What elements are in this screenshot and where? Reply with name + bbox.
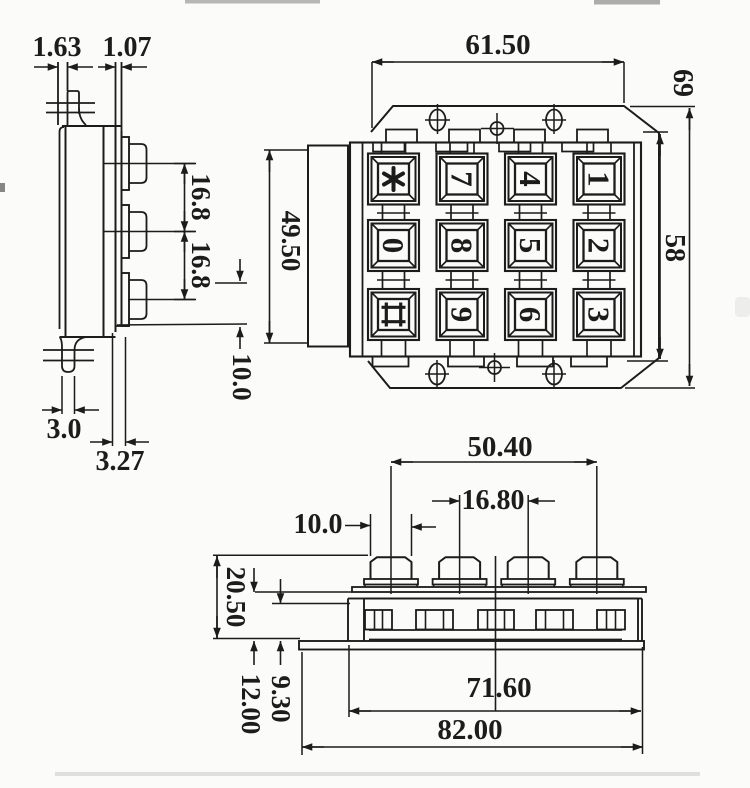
extension line 1.07 left [115, 62, 117, 127]
bottom view button 3 [501, 557, 555, 587]
dim line 58 [656, 134, 664, 359]
extension tick button3 cap top [215, 282, 247, 284]
link row3 to frame-bottom [382, 340, 406, 357]
side view button 3 [122, 273, 147, 326]
leader 10.0 [345, 522, 436, 531]
extension lines 3.0 [62, 376, 75, 414]
svg-text:82.00: 82.00 [437, 714, 502, 746]
dim text 10.0 bottom [294, 509, 343, 540]
bottom center hole crosshair [479, 353, 510, 382]
scan artifact bottom [55, 772, 700, 776]
base plate [299, 641, 644, 650]
extension line 69 bottom [625, 387, 695, 389]
tab above frame [449, 130, 480, 143]
extension line 1.07 right [121, 62, 123, 131]
dim text 20.50 [221, 567, 251, 628]
extension lines 50.40 [391, 466, 597, 594]
svg-text:1.07: 1.07 [103, 32, 152, 63]
side view body outline [60, 126, 122, 337]
dim text 82.00 [437, 714, 502, 746]
dim arrows 16.8 lower [181, 232, 189, 300]
link row1-row2 [514, 205, 547, 221]
dim arrows 12.00 [250, 568, 258, 665]
extension lines 71.60 [349, 645, 643, 754]
key 8 outline row2 col2 [437, 220, 488, 271]
svg-text:71.60: 71.60 [466, 672, 531, 704]
dim text 9.30 [266, 675, 296, 722]
dim line 71.60 [349, 707, 641, 715]
dim text 16.8 lower [186, 241, 216, 288]
mounting plate bar [352, 587, 646, 592]
svg-text:10.0: 10.0 [294, 509, 343, 540]
svg-text:50.40: 50.40 [467, 431, 532, 463]
link row3 to frame-bottom [519, 340, 543, 357]
extension tick 58 top [643, 131, 668, 133]
key 9 outline row3 col2 [437, 289, 488, 340]
key 0 glyph [376, 238, 411, 254]
svg-text:16.8: 16.8 [186, 241, 216, 288]
svg-text:12.00: 12.00 [236, 674, 266, 735]
svg-text:3.0: 3.0 [47, 414, 82, 445]
keypad frame outer [350, 143, 641, 357]
tab on frame top [562, 143, 594, 152]
top left oval hole [425, 104, 450, 134]
side view bezel plate [116, 126, 130, 332]
bottom view button 2 [433, 557, 487, 587]
dim arrows 16.8 upper [181, 164, 189, 232]
button centerline extensions [104, 164, 195, 300]
key 0 outline row2 col1 [368, 220, 419, 271]
dim text 58 [659, 234, 690, 262]
bottom view button 4 [570, 557, 624, 587]
key 1 glyph [582, 171, 617, 187]
tab above frame [386, 130, 417, 143]
top center hole crosshair [481, 113, 514, 144]
side view bottom tab [60, 337, 87, 372]
svg-text:9: 9 [445, 307, 480, 323]
dim text 1.07 [103, 32, 152, 63]
key &#10033; outline row1 col1 [368, 154, 419, 205]
dim chain 16.8 line [174, 164, 196, 300]
link row1-row2 [377, 205, 410, 221]
key 6 outline row3 col3 [505, 289, 556, 340]
key 5 glyph [513, 238, 548, 254]
dim text 1.63 [33, 32, 82, 63]
extension lines 3.27 [113, 333, 126, 446]
dim line 50.40 [391, 458, 597, 466]
extension line bezel bottom to 10.0 dim [117, 324, 247, 325]
key * glyph [384, 168, 403, 190]
key 2 glyph [582, 238, 617, 254]
svg-text:6: 6 [513, 307, 548, 323]
left side box of keypad [308, 146, 348, 347]
tab below frame [517, 357, 553, 367]
link frame-top to key row1 [450, 143, 474, 154]
dim text 10.0 side [227, 353, 257, 400]
svg-text:16.8: 16.8 [186, 173, 216, 220]
extension tick 58 bottom [627, 360, 668, 362]
center line bottom view [495, 556, 497, 711]
svg-text:4: 4 [513, 171, 548, 187]
link row1-row2 [583, 205, 616, 221]
bottom right oval hole [542, 360, 566, 388]
bottom view body outline [348, 599, 642, 641]
dim line 49.50 [266, 150, 274, 343]
key 9 glyph [445, 307, 480, 323]
bottom view button 1 [364, 557, 418, 587]
svg-text:9.30: 9.30 [266, 675, 296, 722]
break lines through top tab [46, 103, 95, 113]
svg-text:2: 2 [582, 238, 617, 254]
tab below frame [571, 357, 607, 367]
dim arrows 3.0 [42, 406, 99, 414]
link row1-row2 [446, 205, 479, 221]
key 7 outline row1 col2 [437, 154, 488, 205]
svg-text:10.0: 10.0 [227, 353, 257, 400]
svg-text:49.50: 49.50 [276, 211, 306, 272]
key 3 outline row3 col4 [574, 289, 625, 340]
extension line 69 top [630, 106, 695, 108]
key # outline row3 col1 [368, 289, 419, 340]
dim line 20.50 [213, 556, 221, 638]
link frame-top to key row1 [587, 143, 611, 154]
extension line 1.63 right (tab edge) [67, 62, 69, 91]
dim line 69 [686, 108, 694, 386]
key 4 outline row1 col3 [505, 154, 556, 205]
body tray strip [369, 630, 622, 640]
key 5 outline row2 col3 [505, 220, 556, 271]
svg-text:58: 58 [659, 234, 690, 262]
dim arrows 1.63 [34, 63, 93, 71]
svg-text:1: 1 [582, 171, 617, 187]
link frame-top to key row1 [519, 143, 543, 154]
link row2-row3 [514, 271, 547, 289]
side view button 2 [122, 205, 147, 258]
svg-text:61.50: 61.50 [465, 29, 530, 61]
dim text 69 [667, 69, 698, 97]
bottom left oval hole [425, 360, 449, 388]
dim arrows 10.0 [236, 259, 244, 349]
scan artifact top left [185, 0, 320, 4]
extension tick 20.50 top [213, 554, 368, 556]
dim text 3.27 [96, 446, 145, 477]
link frame-top to key row1 [382, 143, 406, 154]
body windows [365, 610, 625, 630]
svg-text:3: 3 [582, 307, 617, 323]
octagonal mounting plate [368, 106, 659, 388]
dim text 50.40 [467, 431, 532, 463]
svg-text:1.63: 1.63 [33, 32, 82, 63]
svg-text:7: 7 [445, 171, 480, 187]
key 8 glyph [445, 238, 480, 254]
key 2 outline row2 col4 [574, 220, 625, 271]
tab above frame [577, 130, 608, 143]
side view button 1 [122, 137, 147, 190]
scan artifact top right [594, 0, 660, 5]
extension lines 16.80 [460, 495, 529, 594]
extension line rib top left [272, 603, 350, 605]
keypad frame inner lines [363, 143, 635, 357]
svg-text:5: 5 [513, 238, 548, 254]
extension ticks 49.50 [264, 150, 308, 343]
tab below frame [448, 357, 484, 367]
top right oval hole [542, 104, 566, 134]
tab above frame [514, 130, 545, 143]
extension lines 10.0 [371, 514, 412, 556]
svg-text:69: 69 [667, 69, 698, 97]
dim text 12.00 [236, 674, 266, 735]
side view back plate [60, 127, 65, 329]
dim line 82.00 [302, 743, 643, 751]
tab on frame top [436, 143, 468, 152]
key # glyph [382, 303, 406, 327]
dim text 16.8 upper [186, 173, 216, 220]
tab on frame top [499, 143, 531, 152]
dim line 61.50 [372, 58, 624, 66]
dim arrows 3.27 [90, 438, 149, 446]
scan artifact left edge [0, 183, 5, 192]
svg-text:3.27: 3.27 [96, 446, 145, 477]
tab below frame [373, 357, 409, 367]
key 6 glyph [513, 307, 548, 323]
link row3 to frame-bottom [450, 340, 474, 357]
svg-text:20.50: 20.50 [221, 567, 251, 628]
key 4 glyph [513, 171, 548, 187]
dim text 49.50 [276, 211, 306, 272]
link row2-row3 [583, 271, 616, 289]
extension tick 20.50 bottom [213, 638, 300, 640]
key 1 outline row1 col4 [574, 154, 625, 205]
tab on frame top [373, 143, 405, 152]
extension line 82.00 left [301, 652, 303, 755]
svg-text:16.80: 16.80 [462, 485, 525, 516]
dim text 61.50 [465, 29, 530, 61]
scan artifact right mid [735, 297, 750, 317]
svg-text:0: 0 [376, 238, 411, 254]
dim arrows 1.07 [98, 63, 147, 71]
dim arrows 9.30 [277, 579, 285, 665]
break lines through bottom tab [43, 350, 94, 361]
link row3 to frame-bottom [587, 340, 611, 357]
side view top mounting tab [68, 91, 87, 126]
dim text 71.60 [466, 672, 531, 704]
dim text 16.80 [462, 485, 525, 516]
extension line plate bottom left [255, 591, 352, 593]
extension line 1.63 left [57, 62, 59, 125]
link row2-row3 [377, 271, 410, 289]
dim arrows 16.80 [432, 497, 555, 505]
svg-text:8: 8 [445, 238, 480, 254]
extension lines 61.50 [372, 62, 624, 128]
dim text 3.0 [47, 414, 82, 445]
key 7 glyph [445, 171, 480, 187]
link row2-row3 [446, 271, 479, 289]
key 3 glyph [582, 307, 617, 323]
